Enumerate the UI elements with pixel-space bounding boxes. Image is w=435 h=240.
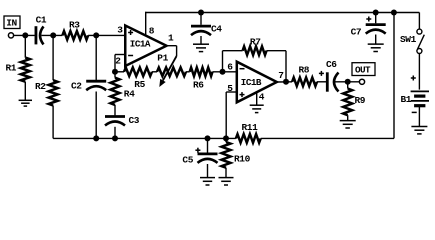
resistor R2	[52, 35, 54, 80]
svg-text:P1: P1	[157, 53, 168, 64]
node C5 junction	[205, 135, 211, 141]
resistor R7 feedback loop	[222, 51, 224, 72]
capacitor C4	[200, 13, 202, 25]
capacitor C5	[207, 138, 209, 152]
node R6/R7 junction	[220, 69, 226, 75]
ground C5	[200, 177, 215, 179]
top rail wire	[145, 12, 147, 13]
wire pin5	[226, 91, 237, 93]
switch SW1	[418, 13, 420, 30]
resistor R1	[24, 35, 26, 57]
svg-text:R7: R7	[250, 36, 261, 47]
wire pin4 + ground	[256, 92, 258, 105]
wire R3 to pin3	[88, 34, 125, 36]
svg-text:1: 1	[168, 32, 174, 43]
svg-text:C6: C6	[326, 59, 337, 70]
svg-text:R6: R6	[193, 80, 204, 91]
node input junction	[22, 32, 28, 38]
svg-text:C7: C7	[351, 26, 362, 37]
svg-text:R5: R5	[134, 79, 145, 90]
wire pin2	[115, 54, 125, 56]
node R10 junction	[223, 135, 229, 141]
resistor R4	[114, 72, 116, 78]
op-amp U2 IC1B	[237, 62, 277, 103]
svg-text:IC1B: IC1B	[241, 77, 262, 88]
bottom rail wire	[53, 137, 236, 139]
svg-text:R1: R1	[6, 63, 17, 74]
capacitor C2	[95, 35, 97, 80]
potentiometer P1	[157, 68, 186, 77]
svg-text:C4: C4	[211, 24, 222, 35]
resistor R10	[225, 138, 227, 142]
svg-text:4: 4	[259, 92, 265, 103]
svg-text:R2: R2	[35, 81, 46, 92]
svg-text:SW1: SW1	[400, 34, 417, 45]
node riser top junction	[391, 10, 397, 16]
svg-text:R3: R3	[69, 20, 80, 31]
svg-text:2: 2	[115, 56, 121, 67]
terminal IN circle	[8, 33, 13, 38]
label IN box	[4, 16, 20, 29]
node pin7 junction	[283, 79, 289, 85]
resistor R11	[236, 134, 261, 143]
capacitor C6	[319, 72, 324, 74]
capacitor C3	[105, 115, 125, 118]
svg-text:IN: IN	[6, 18, 17, 29]
svg-text:3: 3	[117, 25, 123, 36]
node C2 bottom junction	[93, 135, 99, 141]
op-amp U1 IC1A	[125, 26, 166, 67]
svg-text:OUT: OUT	[355, 64, 371, 75]
battery B1	[411, 90, 429, 92]
wire C1 to R3	[42, 34, 63, 36]
right riser wire	[393, 12, 395, 139]
svg-text:C5: C5	[182, 155, 193, 166]
node C3 bottom junction	[112, 135, 118, 141]
node R3/C2 junction	[93, 32, 99, 38]
ground B1	[411, 126, 427, 128]
wire pin1 output	[167, 45, 177, 47]
resistor R6	[186, 71, 190, 73]
resistor R9	[347, 82, 349, 89]
wire pin7 output	[277, 81, 292, 83]
svg-text:B1: B1	[401, 94, 412, 105]
ground R1	[19, 99, 32, 101]
node OUT junction	[345, 79, 351, 85]
svg-text:IC1A: IC1A	[130, 39, 151, 50]
svg-text:7: 7	[278, 70, 284, 81]
wire pin8	[145, 13, 147, 36]
capacitor C7	[373, 10, 379, 16]
svg-text:C2: C2	[71, 81, 82, 92]
svg-text:R11: R11	[242, 122, 259, 133]
resistor R8	[292, 78, 317, 87]
node pin2/R4/R5 junction	[112, 69, 118, 75]
ground C4	[193, 43, 209, 45]
svg-text:C3: C3	[129, 115, 140, 126]
svg-text:8: 8	[149, 25, 155, 36]
svg-text:C1: C1	[36, 14, 47, 25]
wire input line	[14, 34, 35, 36]
capacitor C1	[35, 26, 38, 44]
wire C6 to OUT	[335, 81, 359, 83]
ground C7	[368, 43, 384, 45]
node C1/R2 junction	[50, 32, 56, 38]
svg-text:6: 6	[227, 61, 233, 72]
label OUT box	[352, 63, 375, 76]
svg-text:R10: R10	[234, 154, 251, 165]
resistor R3	[62, 31, 88, 40]
ground R9	[340, 120, 356, 122]
terminal OUT circle	[359, 79, 364, 84]
svg-text:R9: R9	[355, 95, 366, 106]
ground R10	[219, 177, 234, 179]
svg-text:R8: R8	[299, 65, 310, 76]
resistor R5	[115, 71, 124, 73]
